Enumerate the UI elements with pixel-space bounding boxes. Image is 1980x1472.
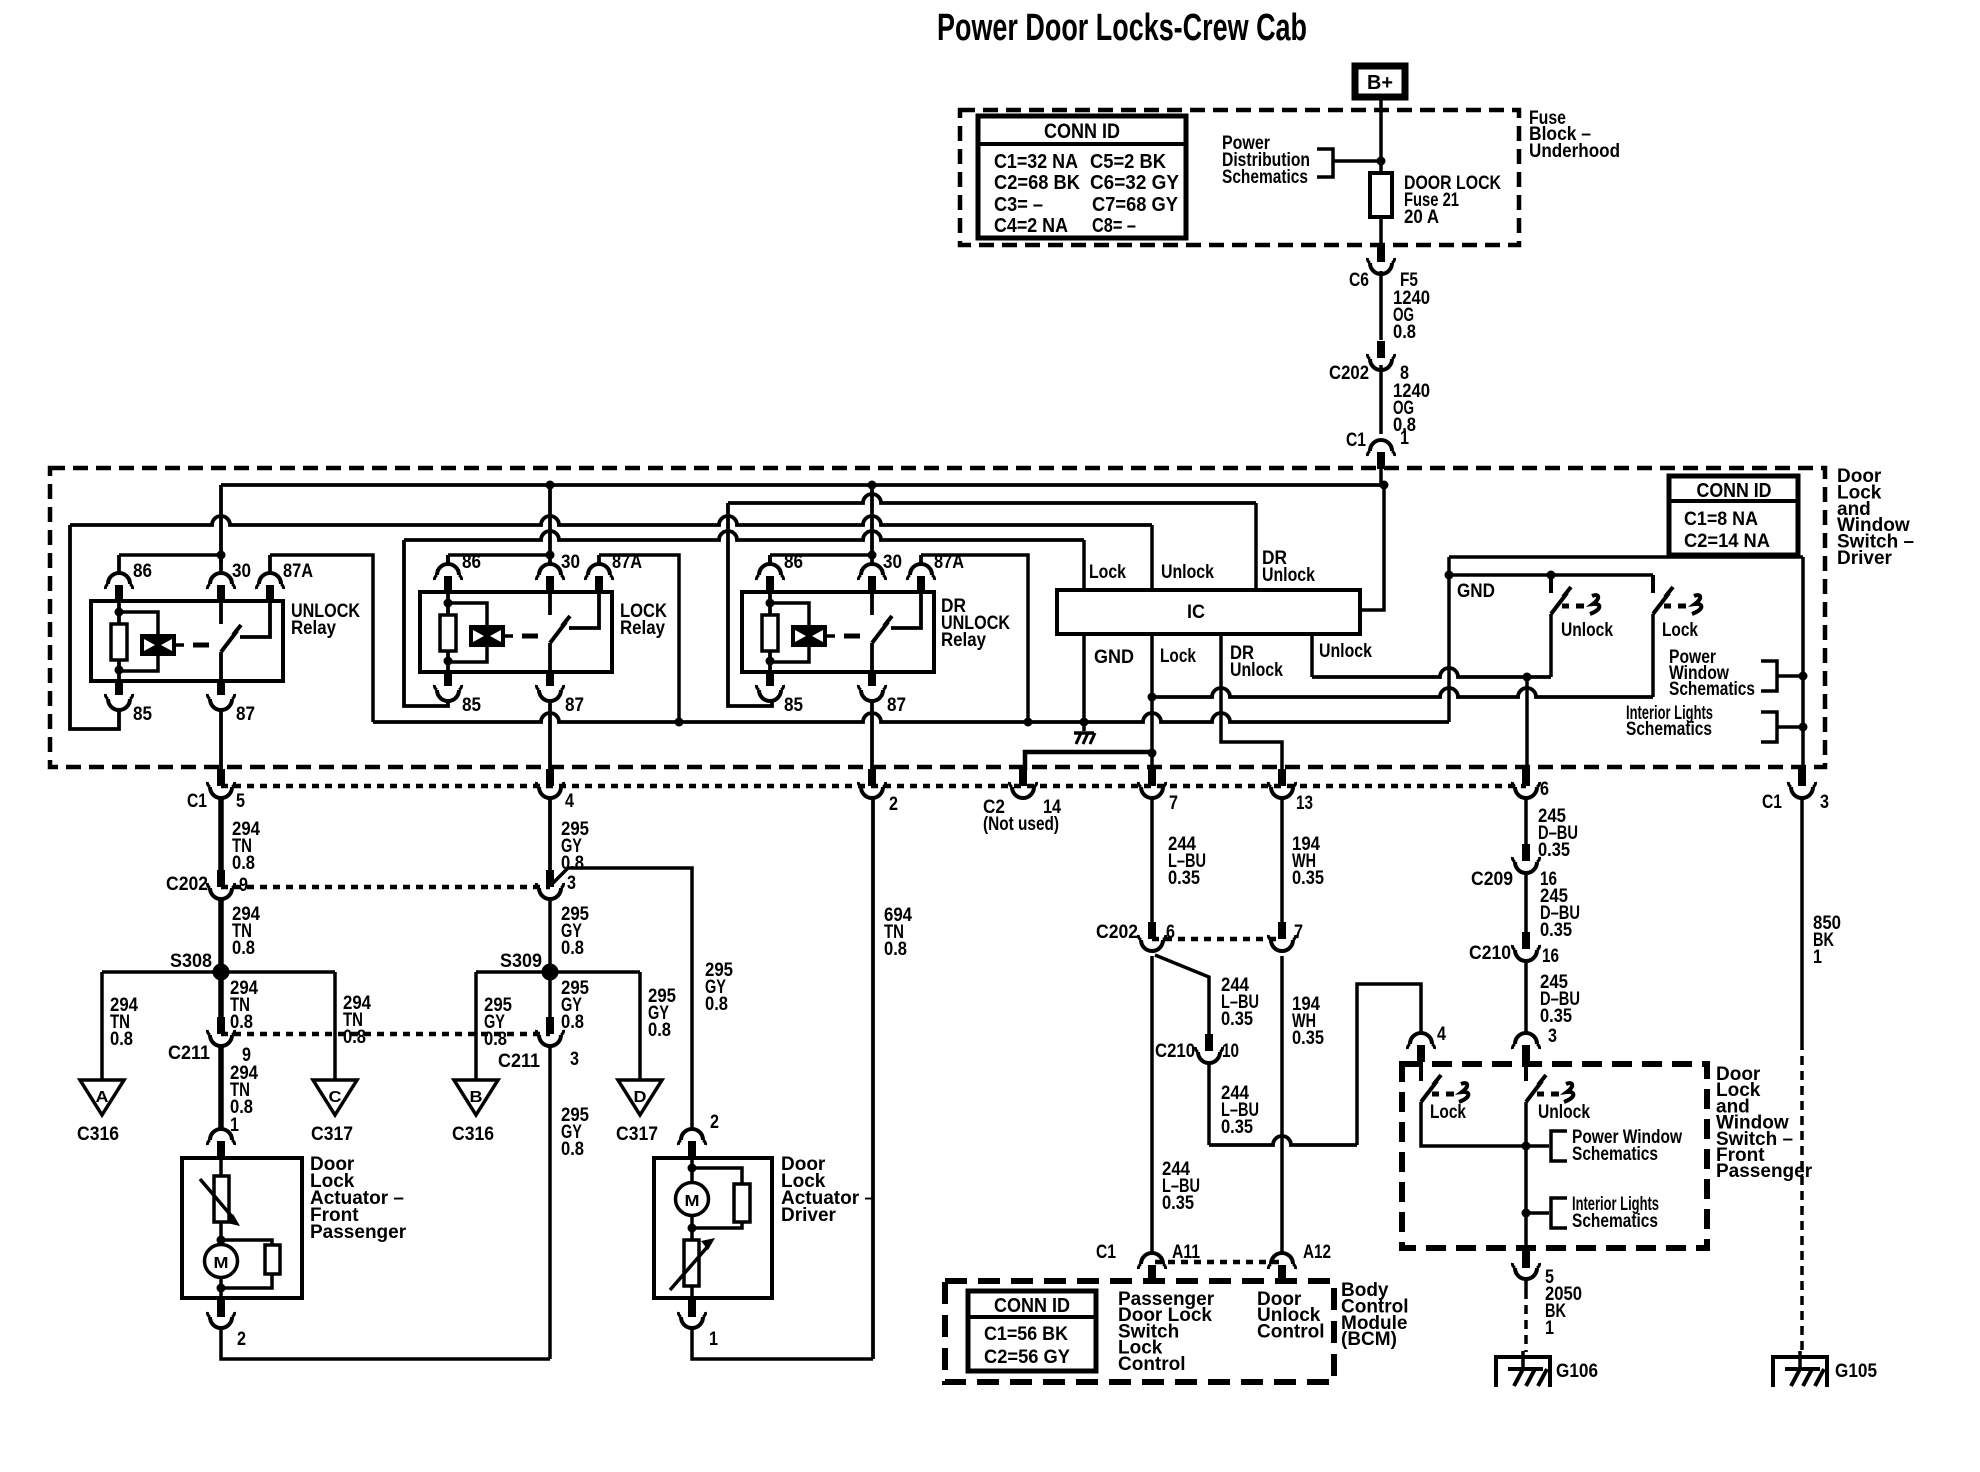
connector pin 1 (driver actuator) <box>688 1298 696 1317</box>
svg-text:16: 16 <box>1542 946 1559 967</box>
svg-text:4: 4 <box>1437 1024 1446 1045</box>
connector row dotted line (driver switch bottom) <box>221 784 1526 789</box>
svg-text:0.8: 0.8 <box>705 994 728 1015</box>
fuse DOOR LOCK Fuse 21 20A <box>1370 173 1392 217</box>
svg-text:C1: C1 <box>187 791 207 812</box>
svg-text:6: 6 <box>1540 779 1549 800</box>
connector C6 F5 <box>1377 245 1385 262</box>
wire unlock relay 86 jog <box>119 553 221 557</box>
svg-text:0.8: 0.8 <box>1393 322 1416 343</box>
power window schematics bracket (passenger) <box>1526 1144 1549 1148</box>
svg-text:M: M <box>214 1255 229 1272</box>
relay LOCK switch <box>548 590 552 615</box>
IC GND output with chassis ground <box>1082 634 1086 731</box>
svg-text:C211: C211 <box>498 1051 540 1072</box>
wire lock relay 85 return to row C <box>404 540 448 706</box>
svg-text:87: 87 <box>887 695 906 716</box>
triangle connector C <box>313 1080 357 1115</box>
connector row dotted line C211 left <box>221 1032 550 1037</box>
wire row A B+ bus <box>221 483 1384 487</box>
relay LOCK pin 85 connector <box>444 672 452 686</box>
svg-text:85: 85 <box>133 704 152 725</box>
triangle connector B <box>454 1080 498 1115</box>
svg-text:0.35: 0.35 <box>1292 868 1324 889</box>
connector pin 2 <box>868 769 876 786</box>
wire dr unlock relay 86 jog <box>770 553 872 557</box>
svg-text:C1: C1 <box>1762 792 1782 813</box>
svg-text:B+: B+ <box>1367 72 1393 94</box>
svg-text:Lock: Lock <box>1430 1102 1466 1123</box>
relay LOCK pin 87 connector <box>546 672 554 686</box>
IC DR Unlock output wire to pin 13 <box>1221 634 1282 770</box>
svg-text:C2=68 BK: C2=68 BK <box>994 172 1081 194</box>
svg-text:Schematics: Schematics <box>1572 1211 1658 1232</box>
svg-text:0.35: 0.35 <box>1540 1006 1572 1027</box>
wire unlock relay 85 return to row B <box>70 525 119 729</box>
connector C202 pin 7 <box>1278 922 1286 939</box>
svg-text:Driver: Driver <box>1837 548 1893 569</box>
relay LOCK pin 87A connector <box>597 555 601 565</box>
triangle connector A <box>80 1080 124 1115</box>
relay DR coil resistor <box>768 590 772 615</box>
svg-text:0.8: 0.8 <box>648 1020 671 1041</box>
svg-text:C6: C6 <box>1349 270 1369 291</box>
front passenger lock switch <box>1419 1062 1423 1081</box>
svg-text:2: 2 <box>710 1112 719 1133</box>
connector pin 7 <box>1148 769 1156 786</box>
wire 245 D-BU 0.35 C209 to C210 <box>1524 872 1528 934</box>
svg-text:C1=56 BK: C1=56 BK <box>984 1324 1068 1345</box>
connector pin 1 (front passenger actuator) <box>210 1129 232 1140</box>
svg-text:Power Door Locks-Crew Cab: Power Door Locks-Crew Cab <box>937 7 1307 49</box>
connector C211 pin 3 <box>546 1017 554 1034</box>
relay DR pin 86 connector <box>768 555 772 565</box>
connector pin 13 <box>1278 769 1286 786</box>
svg-text:Lock: Lock <box>1160 646 1196 667</box>
svg-text:C202: C202 <box>166 874 208 895</box>
svg-text:C2=14 NA: C2=14 NA <box>1684 531 1770 552</box>
connector pin 5 (front passenger switch) <box>1522 1248 1530 1268</box>
svg-text:1: 1 <box>1813 947 1822 968</box>
driver switch gnd bus top <box>1449 555 1803 559</box>
ground G105 <box>1798 1351 1802 1370</box>
svg-text:C2=56 GY: C2=56 GY <box>984 1347 1070 1368</box>
svg-text:Unlock: Unlock <box>1262 565 1315 586</box>
svg-text:Unlock: Unlock <box>1319 641 1372 662</box>
svg-text:C: C <box>329 1089 342 1106</box>
svg-text:A12: A12 <box>1303 1242 1331 1263</box>
wire row D IC dr-unlock to dr relay 85 <box>728 494 1256 503</box>
wire B+ drop to lock relay <box>548 485 552 556</box>
svg-text:9: 9 <box>239 875 248 896</box>
front passenger actuator resistor <box>221 1240 272 1245</box>
svg-text:7: 7 <box>1169 793 1178 814</box>
svg-text:Relay: Relay <box>620 618 665 639</box>
svg-text:Schematics: Schematics <box>1669 679 1755 700</box>
relay UNLOCK switch <box>219 599 223 624</box>
relay LOCK coil <box>448 603 487 625</box>
wire 694 TN 0.8 from pin 2 <box>871 797 875 1359</box>
connector C1 pin 3 (right) <box>1798 769 1806 786</box>
wire 294 TN 0.8 to connector C <box>333 972 337 1080</box>
wire dr unlock relay 85 return to row D <box>728 503 772 706</box>
wire 850 BK 1 C1 pin3 to ground <box>1800 797 1804 1041</box>
svg-text:C5=2 BK: C5=2 BK <box>1090 151 1167 173</box>
svg-text:5: 5 <box>236 791 245 812</box>
wire 294 TN 0.8 pin5 to C202 <box>218 796 224 870</box>
svg-text:C1=32 NA: C1=32 NA <box>994 151 1078 173</box>
svg-text:CONN ID: CONN ID <box>1044 120 1120 143</box>
svg-text:0.8: 0.8 <box>230 1012 253 1033</box>
CONN ID table (BCM) <box>968 1291 1096 1371</box>
connector C2 pin 14 <box>1019 769 1027 786</box>
svg-text:Unlock: Unlock <box>1161 562 1214 583</box>
svg-text:0.35: 0.35 <box>1168 868 1200 889</box>
wire 244 L-BU 0.35 C210 to lock switch pin 4 <box>1207 1062 1211 1145</box>
svg-text:C7=68 GY: C7=68 GY <box>1092 194 1179 216</box>
svg-text:4: 4 <box>565 791 574 812</box>
wire unlock 87A to ground bus <box>270 555 373 722</box>
wire 294 TN 0.8 C202 to S308 <box>218 897 224 972</box>
relay UNLOCK pin 85 connector <box>115 681 123 695</box>
svg-text:1: 1 <box>1545 1318 1554 1339</box>
door lock and window switch driver dashed box <box>50 468 1825 767</box>
svg-text:Unlock: Unlock <box>1230 660 1283 681</box>
wire dr unlock 87 to pin 2 <box>870 699 874 770</box>
svg-text:CONN ID: CONN ID <box>1697 480 1772 502</box>
wire 295 GY 0.8 S309 to C211 <box>548 972 552 1020</box>
door lock actuator front passenger box <box>182 1158 302 1298</box>
relay LOCK pin 30 connector <box>548 555 552 565</box>
relay DR pin 87 connector <box>868 672 876 686</box>
svg-text:86: 86 <box>133 561 152 582</box>
svg-text:Lock: Lock <box>1662 620 1698 641</box>
svg-text:C209: C209 <box>1471 869 1513 890</box>
wire 295 GY 0.8 long run to actuator return <box>548 1045 552 1359</box>
wire 295 GY 0.8 C202 to S309 <box>548 898 552 972</box>
wire B+ to fuse <box>1379 97 1383 173</box>
relay UNLOCK pin 87 connector <box>217 681 225 695</box>
svg-text:87: 87 <box>236 704 255 725</box>
svg-text:GND: GND <box>1094 647 1134 668</box>
svg-text:0.35: 0.35 <box>1162 1193 1194 1214</box>
svg-text:C202: C202 <box>1096 922 1138 943</box>
wire B+ drop to dr unlock relay <box>870 485 874 556</box>
wire 244 L-BU 0.35 C202 to A11 <box>1150 956 1154 1252</box>
connector C210 pin 10 <box>1205 1034 1213 1051</box>
svg-text:2: 2 <box>237 1329 246 1350</box>
wire driver switch to C1 pin 3 <box>1801 557 1805 770</box>
svg-text:C1: C1 <box>1346 430 1366 451</box>
connector row dotted line C202 right <box>1152 937 1282 942</box>
relay UNLOCK coil <box>119 612 158 634</box>
ground G106 <box>1521 1351 1525 1370</box>
svg-text:0.35: 0.35 <box>1221 1117 1253 1138</box>
svg-text:0.8: 0.8 <box>232 853 255 874</box>
svg-text:B: B <box>470 1089 483 1106</box>
wire 294 TN 0.8 pin 1 to actuator <box>218 1044 224 1128</box>
svg-text:0.8: 0.8 <box>232 938 255 959</box>
relay DR pin 85 connector <box>766 672 774 686</box>
svg-text:Unlock: Unlock <box>1538 1102 1590 1123</box>
wire 1240 OG 0.8 (C202 to C1) <box>1379 365 1383 434</box>
wire B+ drop to unlock relay <box>219 485 223 563</box>
relay DR pin 30 connector <box>870 555 874 565</box>
svg-text:C210: C210 <box>1469 943 1511 964</box>
relay UNLOCK coil resistor <box>117 599 121 624</box>
svg-text:7: 7 <box>1294 922 1303 943</box>
svg-text:C6=32 GY: C6=32 GY <box>1090 172 1180 194</box>
driver actuator motor <box>690 1158 694 1184</box>
wire 245 D-BU 0.35 C210 to pin 3 <box>1524 960 1528 1033</box>
svg-text:D: D <box>634 1089 647 1106</box>
svg-text:Underhood: Underhood <box>1529 141 1620 162</box>
wire row C IC lock to lock relay 85 <box>404 531 1084 540</box>
wire 294 TN 0.8 to connector A <box>100 972 104 1080</box>
wire 194 WH 0.35 C202 to A12 <box>1280 956 1284 1252</box>
wire to driver door lock actuator <box>552 868 692 1128</box>
relay UNLOCK pin 30 connector <box>219 555 223 574</box>
wire actuator pin2 to C211 pin3 wire <box>221 1326 550 1359</box>
svg-text:C1=8 NA: C1=8 NA <box>1684 509 1758 530</box>
svg-text:Passenger: Passenger <box>310 1222 407 1243</box>
connector C210 pin 16 <box>1522 932 1530 949</box>
connector row dotted line BCM <box>1155 1260 1280 1265</box>
driver lock switch <box>1651 575 1655 593</box>
svg-text:30: 30 <box>883 552 902 573</box>
IC Unlock output wire to driver unlock switch <box>1310 634 1314 677</box>
svg-text:86: 86 <box>462 552 481 573</box>
wire B+ feed into IC <box>1360 485 1384 610</box>
wire lock relay 86 jog <box>448 553 550 557</box>
svg-text:2: 2 <box>889 794 898 815</box>
wire unlock 87 to pin 5 <box>219 708 223 770</box>
connector row dotted line C202 left <box>221 885 550 890</box>
svg-text:Lock: Lock <box>1089 562 1126 583</box>
svg-text:Schematics: Schematics <box>1572 1144 1658 1165</box>
triangle connector D <box>618 1080 662 1115</box>
svg-text:0.8: 0.8 <box>561 1139 584 1160</box>
svg-text:6: 6 <box>1166 922 1175 943</box>
svg-text:87A: 87A <box>283 561 313 582</box>
svg-text:GND: GND <box>1457 581 1495 602</box>
wire lock 87A to ground bus <box>599 555 679 722</box>
driver actuator variable resistor <box>684 1240 699 1286</box>
relay LOCK pin 86 connector <box>446 555 450 565</box>
svg-text:13: 13 <box>1296 793 1313 814</box>
svg-text:Control: Control <box>1118 1354 1186 1375</box>
svg-text:C316: C316 <box>452 1124 494 1145</box>
svg-text:C316: C316 <box>77 1124 119 1145</box>
wire 295 GY 0.8 pin4 to C202 <box>548 797 552 870</box>
svg-text:86: 86 <box>784 552 803 573</box>
svg-text:S309: S309 <box>500 951 542 972</box>
svg-text:CONN ID: CONN ID <box>994 1295 1070 1317</box>
relay LOCK coil resistor <box>446 590 450 615</box>
door lock and window switch front passenger dashed box <box>1402 1064 1707 1248</box>
relay UNLOCK pin 87A connector <box>268 555 272 574</box>
relay UNLOCK pin 86 connector <box>117 555 121 574</box>
wire lock 87 to pin 4 <box>548 699 552 770</box>
wire 1240 OG 0.8 (fuse to C202) <box>1379 271 1383 340</box>
svg-text:3: 3 <box>1548 1026 1557 1047</box>
svg-text:C317: C317 <box>311 1124 353 1145</box>
door lock actuator driver box <box>654 1158 772 1298</box>
svg-text:3: 3 <box>1820 792 1829 813</box>
svg-text:Relay: Relay <box>941 630 986 651</box>
svg-text:C211: C211 <box>168 1043 210 1064</box>
driver switch gnd inner bus <box>1449 573 1653 577</box>
relay UNLOCK box <box>91 601 283 681</box>
svg-text:30: 30 <box>561 552 580 573</box>
connector C209 pin 16 <box>1522 844 1530 861</box>
svg-text:Control: Control <box>1257 1321 1325 1342</box>
front passenger actuator motor <box>219 1222 223 1245</box>
wire driver actuator pin1 to 694 TN <box>692 1326 873 1359</box>
svg-text:G105: G105 <box>1835 1361 1877 1382</box>
connector C202 pin 6 <box>1148 922 1156 939</box>
svg-text:M: M <box>685 1193 700 1210</box>
connector C211 pin 9 <box>217 1017 225 1034</box>
driver actuator resistor <box>692 1168 742 1184</box>
wire lock switch to IC lock line <box>1152 688 1653 697</box>
relay DR switch <box>870 590 874 615</box>
svg-text:C317: C317 <box>616 1124 658 1145</box>
svg-text:0.8: 0.8 <box>110 1029 133 1050</box>
svg-text:0.35: 0.35 <box>1292 1028 1324 1049</box>
svg-text:0.35: 0.35 <box>1540 920 1572 941</box>
front passenger actuator variable resistor <box>219 1156 223 1176</box>
C2 pin 14 not used wire <box>1025 752 1152 770</box>
svg-text:A11: A11 <box>1172 1242 1200 1263</box>
body control module dashed box <box>945 1281 1334 1382</box>
ground bus inside driver switch <box>373 713 1449 722</box>
wire dr unlock 87A to ground bus <box>921 555 1028 722</box>
svg-text:0.35: 0.35 <box>1538 840 1570 861</box>
svg-text:0.35: 0.35 <box>1221 1009 1253 1030</box>
fuse block underhood dashed box <box>960 110 1519 245</box>
svg-text:(BCM): (BCM) <box>1341 1329 1397 1350</box>
wire pin6 drop from unlock switch node <box>1525 677 1529 770</box>
svg-text:A: A <box>96 1089 109 1106</box>
connector C202 pin 3 <box>546 870 554 887</box>
battery B+ terminal <box>1355 66 1405 97</box>
IC Lock output wire to pin 7 <box>1150 634 1154 770</box>
wire 194 WH 0.35 pin13 to C202 <box>1280 797 1284 932</box>
svg-text:Driver: Driver <box>781 1205 837 1226</box>
svg-text:C4=2 NA: C4=2 NA <box>994 215 1068 237</box>
svg-text:C202: C202 <box>1329 363 1369 384</box>
svg-text:3: 3 <box>567 873 576 894</box>
relay LOCK box <box>420 592 612 672</box>
CONN ID table (fuse block) <box>978 116 1186 238</box>
svg-text:20 A: 20 A <box>1404 207 1439 228</box>
front passenger unlock switch <box>1524 1062 1528 1081</box>
svg-text:0.8: 0.8 <box>884 939 907 960</box>
svg-text:30: 30 <box>232 561 251 582</box>
relay DR box <box>742 592 934 672</box>
driver unlock switch <box>1549 575 1553 593</box>
svg-text:C210: C210 <box>1155 1041 1195 1062</box>
interior lights schematics bracket (passenger) <box>1526 1211 1549 1215</box>
CONN ID table (driver switch) <box>1669 476 1798 555</box>
svg-text:87: 87 <box>565 695 584 716</box>
connector pin 6 <box>1522 769 1530 786</box>
svg-text:(Not used): (Not used) <box>983 814 1059 835</box>
wire 244 L-BU 0.35 jog to C210 <box>1155 955 1209 1037</box>
connector C202 pin 8 <box>1377 341 1385 358</box>
svg-text:G106: G106 <box>1556 1361 1598 1382</box>
svg-text:3: 3 <box>570 1049 579 1070</box>
svg-text:0.8: 0.8 <box>561 938 584 959</box>
svg-text:IC: IC <box>1187 602 1205 623</box>
connector C1 pin 5 <box>217 769 225 786</box>
svg-text:C1: C1 <box>1096 1242 1116 1263</box>
svg-text:Schematics: Schematics <box>1626 719 1712 740</box>
svg-text:10: 10 <box>1222 1041 1239 1062</box>
connector pin 2 (front passenger actuator) <box>217 1298 225 1317</box>
relay DR pin 87A connector <box>919 555 923 565</box>
svg-text:Relay: Relay <box>291 618 336 639</box>
svg-text:1: 1 <box>709 1329 718 1350</box>
svg-text:1: 1 <box>1400 428 1409 449</box>
svg-text:C8= –: C8= – <box>1092 215 1136 237</box>
svg-text:Unlock: Unlock <box>1561 620 1613 641</box>
svg-text:0.8: 0.8 <box>343 1027 366 1048</box>
relay DR coil <box>770 603 809 625</box>
wire 244 L-BU 0.35 pin7 to C202 <box>1150 797 1154 932</box>
svg-text:Schematics: Schematics <box>1222 167 1308 188</box>
connector pin 4 <box>546 769 554 786</box>
wire 295 GY 0.8 to connector D <box>638 972 642 1080</box>
IC box <box>1057 590 1360 634</box>
svg-text:C3= –: C3= – <box>994 194 1043 216</box>
svg-text:85: 85 <box>462 695 481 716</box>
svg-text:0.8: 0.8 <box>484 1029 507 1050</box>
wire 245 D-BU 0.35 pin6 to C209 <box>1524 797 1528 846</box>
svg-text:S308: S308 <box>170 951 212 972</box>
wire row B IC unlock to relay 85 <box>70 516 1152 525</box>
wire 295 GY 0.8 to connector B <box>474 972 478 1080</box>
svg-text:85: 85 <box>784 695 803 716</box>
wire 294 TN 0.8 S308 to C211 <box>218 972 224 1022</box>
svg-text:Passenger: Passenger <box>1716 1161 1813 1182</box>
connector C202 pin 9 <box>217 870 225 887</box>
